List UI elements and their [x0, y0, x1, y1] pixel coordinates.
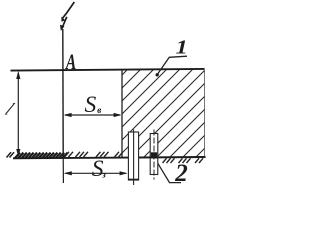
ground line left segment — [13, 157, 128, 160]
svg-text:A: A — [65, 50, 76, 74]
svg-text:в: в — [97, 105, 101, 115]
label 2 — [174, 160, 188, 187]
right electrode junction blob — [151, 152, 157, 158]
svg-text:S: S — [85, 92, 97, 118]
dimension Sz: horizontal double arrow below ground — [64, 171, 128, 175]
dimension Sv: horizontal double arrow mast to block — [64, 113, 122, 117]
svg-text:2: 2 — [174, 160, 188, 187]
middle ground mark groups (above line) — [65, 152, 124, 157]
lightning rod mast (vertical line) — [62, 29, 64, 158]
left electrode bottom thick edge — [128, 179, 139, 181]
ground line right segment — [139, 156, 206, 159]
svg-text:1: 1 — [176, 35, 188, 57]
right electrode (grounding rod 2) white fill — [150, 134, 158, 175]
left electrode (foundation) white fill — [128, 132, 138, 180]
dimension l: vertical line with arrows — [16, 71, 20, 157]
svg-text:з: з — [101, 169, 106, 179]
top horizontal line (protection zone boundary) — [11, 69, 205, 71]
label 1 — [176, 35, 188, 57]
node A label — [65, 50, 76, 74]
dense ground hatch band left — [15, 153, 68, 158]
lightning bolt — [60, 2, 74, 31]
label 1 leader line with dot — [156, 56, 188, 76]
right ground mark groups (below line) — [163, 158, 204, 163]
building block 1 hatching — [40, 57, 296, 157]
building block left edge — [121, 70, 123, 158]
building block right edge — [204, 70, 206, 158]
label 2 leader line — [158, 163, 181, 182]
right electrode center line (dashed) — [153, 130, 155, 180]
left electrode center line — [133, 130, 135, 186]
label l — [1, 100, 17, 118]
lone ground marks far left — [7, 152, 15, 157]
mast below-ground extension — [62, 158, 64, 184]
